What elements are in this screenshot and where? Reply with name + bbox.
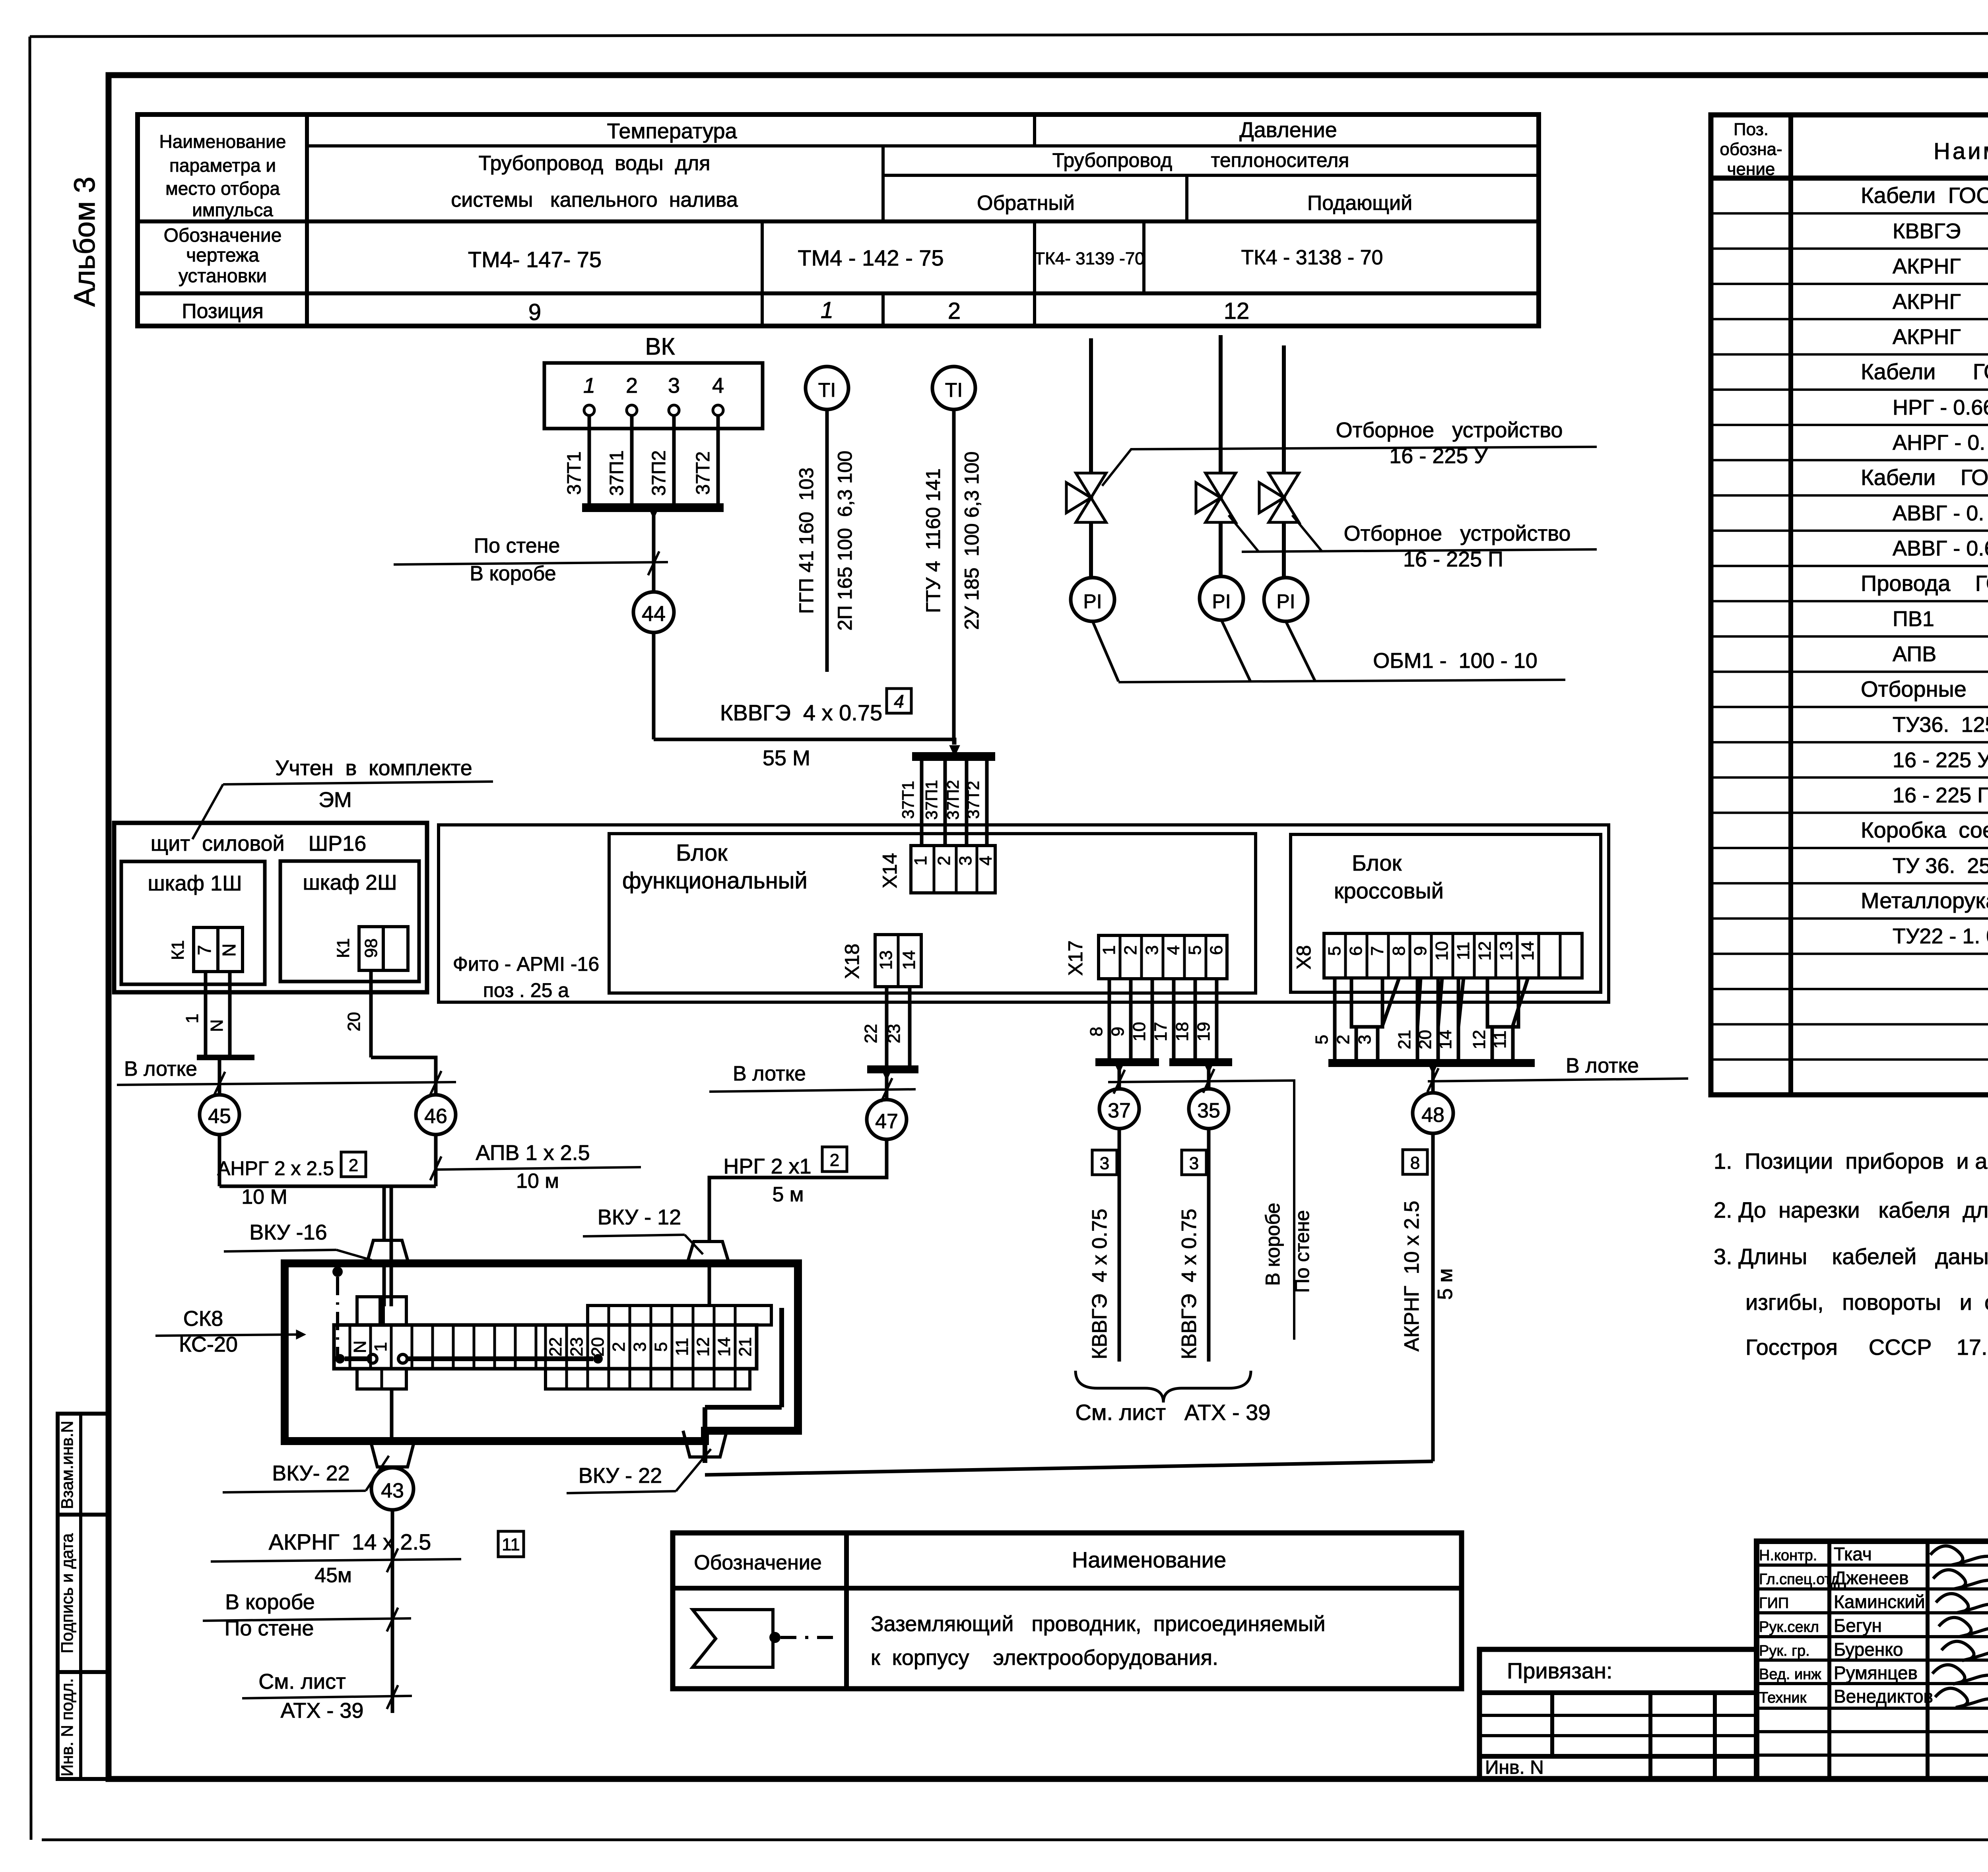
svg-text:Обозначение: Обозначение	[164, 225, 282, 246]
svg-text:Блок: Блок	[1352, 850, 1402, 875]
svg-text:37Т2: 37Т2	[693, 451, 714, 495]
svg-text:45: 45	[208, 1105, 231, 1128]
svg-text:чертежа: чертежа	[186, 245, 259, 266]
svg-text:5: 5	[1325, 946, 1344, 956]
svg-text:В лотке: В лотке	[124, 1057, 197, 1081]
svg-text:Отборные устройства: Отборные устройства	[1861, 676, 1988, 701]
svg-text:9: 9	[528, 299, 541, 325]
svg-text:1: 1	[583, 374, 595, 398]
svg-text:3. Длины кабелей даны с: 3. Длины кабелей даны с учетом 6 % надба…	[1714, 1244, 1988, 1269]
svg-text:импульса: импульса	[192, 200, 273, 220]
svg-text:АВВГ - 0. 66 2 х 2.5: АВВГ - 0. 66 2 х 2.5	[1893, 501, 1988, 525]
svg-text:ТК4 - 3138 - 70: ТК4 - 3138 - 70	[1241, 246, 1383, 269]
svg-text:См. лист АТХ - 39: См. лист АТХ - 39	[1076, 1400, 1271, 1425]
svg-text:13: 13	[1497, 941, 1516, 961]
svg-text:3: 3	[1355, 1035, 1375, 1044]
svg-text:ТУ 36. 2568 - 83: ТУ 36. 2568 - 83	[1893, 854, 1988, 878]
svg-text:37Т1: 37Т1	[564, 451, 585, 495]
svg-text:PI: PI	[1276, 590, 1295, 613]
svg-text:АПВ 1 х 2.5: АПВ 1 х 2.5	[1893, 642, 1988, 666]
svg-text:Бегун: Бегун	[1834, 1615, 1882, 1636]
svg-text:2: 2	[830, 1150, 839, 1170]
svg-text:37: 37	[1108, 1099, 1131, 1122]
svg-text:Альбом 3: Альбом 3	[68, 177, 101, 307]
svg-text:TI: TI	[945, 379, 963, 401]
svg-text:10 м: 10 м	[516, 1170, 559, 1193]
svg-text:X17: X17	[1064, 941, 1087, 976]
svg-text:Давление: Давление	[1239, 118, 1337, 142]
svg-text:11: 11	[672, 1338, 692, 1356]
svg-text:Дженеев: Дженеев	[1834, 1567, 1909, 1588]
svg-text:к корпусу электрооборудова: к корпусу электрооборудования.	[871, 1646, 1218, 1670]
svg-text:Коробка соединительная КС-2: Коробка соединительная КС-20	[1861, 817, 1988, 842]
svg-text:20: 20	[1415, 1030, 1435, 1049]
svg-text:Венедиктов: Венедиктов	[1834, 1686, 1933, 1707]
svg-text:X18: X18	[841, 944, 863, 979]
svg-text:В коробе: В коробе	[470, 562, 556, 585]
svg-text:АПВ 1 х 2.5: АПВ 1 х 2.5	[476, 1141, 590, 1165]
svg-text:Металлорукав РЗ - Ц - Х -: Металлорукав РЗ - Ц - Х - 12	[1861, 888, 1988, 913]
svg-text:АНРГ - 0. 66 2 х 2.5: АНРГ - 0. 66 2 х 2.5	[1893, 431, 1988, 455]
svg-text:ТМ4- 147- 75: ТМ4- 147- 75	[468, 247, 602, 272]
svg-text:2: 2	[626, 374, 638, 398]
svg-text:Румянцев: Румянцев	[1834, 1662, 1918, 1683]
svg-text:В лотке: В лотке	[1566, 1054, 1639, 1077]
svg-text:14: 14	[899, 951, 919, 970]
svg-text:2. До нарезки кабеля длины: 2. До нарезки кабеля длины трасс уточнит…	[1714, 1197, 1988, 1222]
svg-text:48: 48	[1421, 1104, 1444, 1127]
svg-text:НРГ 2 х1: НРГ 2 х1	[723, 1154, 811, 1178]
svg-text:Техник: Техник	[1759, 1690, 1807, 1706]
svg-text:функциональный: функциональный	[622, 868, 808, 894]
svg-text:Поз.: Поз.	[1734, 120, 1769, 139]
svg-text:ОБМ1 - 100 - 10: ОБМ1 - 100 - 10	[1373, 649, 1538, 673]
svg-text:35: 35	[1197, 1099, 1220, 1122]
svg-text:Рук.секл: Рук.секл	[1759, 1619, 1819, 1635]
svg-text:Наименование: Наименование	[159, 131, 286, 152]
svg-text:Провода ГОСТ 6323 - 79: Провода ГОСТ 6323 - 79	[1861, 570, 1988, 596]
svg-text:обозна-: обозна-	[1720, 140, 1782, 159]
svg-text:Блок: Блок	[676, 840, 728, 866]
svg-text:Привязан:: Привязан:	[1507, 1658, 1612, 1683]
svg-text:4: 4	[712, 374, 724, 398]
svg-text:1: 1	[182, 1014, 202, 1023]
svg-text:В лотке: В лотке	[733, 1062, 806, 1085]
svg-text:Рук. гр.: Рук. гр.	[1759, 1643, 1810, 1659]
svg-text:17: 17	[1151, 1022, 1171, 1042]
svg-text:TI: TI	[818, 379, 836, 401]
svg-text:37П2: 37П2	[648, 450, 670, 496]
svg-text:СК8: СК8	[183, 1307, 223, 1331]
svg-text:ВК: ВК	[645, 333, 675, 360]
svg-text:PI: PI	[1083, 590, 1102, 613]
svg-text:Трубопровод теплоносител: Трубопровод теплоносителя	[1052, 149, 1349, 171]
svg-text:щит силовой ШР16: щит силовой ШР16	[151, 832, 367, 855]
svg-text:5 м: 5 м	[1434, 1268, 1457, 1300]
svg-text:Инв. N подл.: Инв. N подл.	[58, 1678, 76, 1777]
svg-text:8: 8	[1087, 1027, 1106, 1036]
svg-text:13: 13	[876, 951, 896, 970]
svg-text:N: N	[219, 943, 239, 956]
svg-text:Отборное устройство: Отборное устройство	[1344, 522, 1571, 545]
svg-text:Подпись и дата: Подпись и дата	[58, 1533, 76, 1653]
svg-text:ТУ22 - 1. 016 - 231 - 86: ТУ22 - 1. 016 - 231 - 86	[1893, 924, 1988, 948]
svg-text:21: 21	[736, 1337, 755, 1357]
svg-text:47: 47	[875, 1110, 898, 1133]
svg-text:11: 11	[502, 1535, 520, 1554]
svg-text:ГТУ 4 1160 141: ГТУ 4 1160 141	[922, 468, 944, 613]
svg-text:43: 43	[381, 1479, 404, 1502]
svg-text:параметра и: параметра и	[169, 155, 276, 176]
svg-text:3: 3	[1189, 1154, 1199, 1173]
svg-text:Подающий: Подающий	[1307, 192, 1412, 215]
svg-text:1. Позиции приборов и аппар: 1. Позиции приборов и аппаратуры указаны…	[1714, 1148, 1988, 1174]
svg-text:N: N	[207, 1019, 227, 1032]
svg-text:37Т1: 37Т1	[899, 781, 917, 819]
svg-text:АВВГ - 0.66 3 х 2.5: АВВГ - 0.66 3 х 2.5	[1893, 537, 1988, 561]
svg-text:ГГП 41 160 103: ГГП 41 160 103	[795, 468, 817, 614]
svg-text:ТК4- 3139 -70: ТК4- 3139 -70	[1034, 249, 1145, 268]
svg-text:3: 3	[668, 374, 680, 398]
svg-text:АНРГ 2 х 2.5: АНРГ 2 х 2.5	[217, 1157, 334, 1179]
svg-text:3: 3	[630, 1342, 650, 1352]
svg-text:55 М: 55 М	[763, 746, 810, 770]
svg-text:9: 9	[1411, 946, 1430, 956]
svg-text:НРГ - 0.66 2 х 1: НРГ - 0.66 2 х 1	[1893, 396, 1988, 419]
svg-text:N: N	[350, 1340, 370, 1353]
svg-text:5 м: 5 м	[772, 1183, 804, 1206]
svg-text:КВВГЭ 4 х 0.75: КВВГЭ 4 х 0.75	[1178, 1209, 1201, 1359]
svg-text:Госстроя СССР 17.12.197: Госстроя СССР 17.12.1979 г N 89Д .	[1745, 1335, 1988, 1360]
svg-text:Наименование: Наименование	[1072, 1547, 1226, 1572]
svg-text:КВВГЭ 4 х 0.75: КВВГЭ 4 х 0.75	[1893, 219, 1988, 243]
svg-text:Позиция: Позиция	[182, 300, 264, 323]
svg-text:46: 46	[424, 1105, 447, 1128]
svg-text:Х8: Х8	[1293, 945, 1315, 969]
svg-text:7: 7	[194, 945, 215, 955]
svg-text:ТУ36. 1258 - 85: ТУ36. 1258 - 85	[1893, 713, 1988, 737]
svg-text:2: 2	[1121, 945, 1140, 955]
svg-text:1: 1	[371, 1342, 390, 1352]
svg-text:8: 8	[1410, 1153, 1420, 1173]
svg-text:14: 14	[1436, 1030, 1455, 1049]
svg-text:2У 185 100 6,3 100: 2У 185 100 6,3 100	[961, 452, 983, 630]
svg-text:16 - 225 У: 16 - 225 У	[1893, 748, 1988, 772]
svg-text:КВВГЭ 4 х 0.75: КВВГЭ 4 х 0.75	[720, 700, 882, 725]
svg-text:Отборное устройство: Отборное устройство	[1336, 418, 1563, 442]
svg-text:3: 3	[956, 856, 975, 865]
svg-text:ВКУ - 12: ВКУ - 12	[598, 1205, 681, 1229]
svg-text:По стене: По стене	[225, 1616, 314, 1640]
svg-text:Ткач: Ткач	[1834, 1544, 1872, 1564]
svg-text:2П 165 100 6,3 100: 2П 165 100 6,3 100	[834, 451, 856, 631]
svg-text:АКРНГ 10 х 2.5: АКРНГ 10 х 2.5	[1400, 1201, 1423, 1351]
svg-text:2: 2	[609, 1342, 629, 1352]
svg-text:Буренко: Буренко	[1834, 1639, 1903, 1660]
svg-text:37П2: 37П2	[944, 780, 962, 820]
svg-text:Вед. инж: Вед. инж	[1759, 1666, 1821, 1683]
svg-text:ВКУ - 22: ВКУ - 22	[579, 1464, 662, 1488]
svg-text:12: 12	[693, 1337, 713, 1357]
svg-text:См. лист: См. лист	[258, 1670, 346, 1694]
svg-text:23: 23	[884, 1024, 904, 1044]
svg-text:22: 22	[861, 1024, 881, 1044]
svg-text:8: 8	[1389, 946, 1409, 956]
svg-text:37П1: 37П1	[606, 450, 627, 496]
svg-text:По стене: По стене	[474, 534, 560, 557]
svg-text:ЭМ: ЭМ	[318, 788, 352, 812]
svg-text:АКРНГ 7 х 2.5: АКРНГ 7 х 2.5	[1893, 254, 1988, 278]
svg-text:Фито - АРМI -16: Фито - АРМI -16	[453, 953, 599, 975]
svg-text:12: 12	[1470, 1030, 1489, 1049]
svg-text:4: 4	[1164, 945, 1183, 955]
svg-text:1: 1	[911, 856, 930, 865]
svg-text:10: 10	[1130, 1022, 1149, 1042]
svg-text:К1: К1	[334, 938, 353, 958]
svg-text:2: 2	[1334, 1035, 1353, 1044]
svg-text:Учтен в комплекте: Учтен в комплекте	[275, 756, 472, 780]
svg-text:18: 18	[1173, 1022, 1192, 1042]
svg-text:11: 11	[1490, 1030, 1510, 1049]
svg-text:3: 3	[1100, 1154, 1109, 1173]
svg-text:К1: К1	[168, 940, 188, 960]
svg-text:23: 23	[567, 1337, 586, 1357]
svg-text:Температура: Температура	[607, 119, 737, 143]
svg-text:4: 4	[894, 691, 904, 712]
svg-text:кроссовый: кроссовый	[1334, 878, 1444, 903]
svg-text:98: 98	[361, 939, 381, 958]
svg-text:По стене: По стене	[1291, 1210, 1313, 1293]
svg-text:11: 11	[1454, 942, 1473, 960]
svg-text:6: 6	[1346, 946, 1366, 956]
svg-text:Каминский: Каминский	[1834, 1591, 1925, 1612]
svg-text:19: 19	[1194, 1022, 1213, 1042]
svg-text:1: 1	[821, 297, 833, 323]
svg-text:АКРНГ 14 х 2.5: АКРНГ 14 х 2.5	[269, 1529, 431, 1554]
svg-text:1: 1	[1099, 945, 1119, 955]
svg-text:44: 44	[642, 602, 666, 626]
svg-text:шкаф 1Ш: шкаф 1Ш	[148, 871, 242, 895]
svg-text:Н.контр.: Н.контр.	[1759, 1547, 1817, 1564]
svg-text:Наименование: Наименование	[1934, 138, 1988, 164]
svg-text:Кабели ГОСТ 433 - 73: Кабели ГОСТ 433 - 73	[1861, 359, 1988, 384]
svg-text:Гл.спец.отд: Гл.спец.отд	[1759, 1571, 1840, 1588]
svg-text:ГИП: ГИП	[1759, 1595, 1789, 1612]
svg-text:5: 5	[651, 1342, 671, 1352]
svg-text:14: 14	[1518, 941, 1538, 961]
svg-text:АКРНГ 10 х 2.5: АКРНГ 10 х 2.5	[1893, 290, 1988, 314]
svg-text:Заземляющий проводник, прис: Заземляющий проводник, присоединяемый	[871, 1612, 1326, 1636]
svg-text:установки: установки	[179, 266, 267, 287]
svg-text:ПВ1 1 х 0.7: ПВ1 1 х 0.75	[1893, 607, 1988, 631]
svg-text:Кабели ГОСТ 16442 - 80: Кабели ГОСТ 16442 - 80	[1861, 465, 1988, 490]
svg-text:чение: чение	[1727, 159, 1775, 179]
svg-text:Трубопровод воды для: Трубопровод воды для	[479, 152, 711, 175]
svg-text:5: 5	[1312, 1035, 1332, 1044]
svg-text:2: 2	[349, 1156, 358, 1175]
svg-text:PI: PI	[1212, 590, 1231, 613]
svg-text:6: 6	[1207, 945, 1226, 955]
svg-text:10 М: 10 М	[241, 1185, 287, 1209]
svg-text:Обозначение: Обозначение	[694, 1551, 822, 1574]
svg-text:3: 3	[1142, 945, 1162, 955]
svg-text:2: 2	[934, 856, 954, 865]
svg-text:Обратный: Обратный	[977, 192, 1075, 215]
svg-text:45м: 45м	[315, 1564, 352, 1587]
svg-text:ТМ4 - 142 - 75: ТМ4 - 142 - 75	[798, 245, 944, 270]
svg-text:Взам.инв.N: Взам.инв.N	[58, 1421, 76, 1509]
svg-text:7: 7	[1368, 946, 1387, 956]
svg-text:10: 10	[1432, 941, 1452, 961]
svg-text:12: 12	[1224, 298, 1250, 324]
svg-text:В коробе: В коробе	[225, 1590, 315, 1614]
svg-text:В коробе: В коробе	[1262, 1203, 1284, 1286]
svg-text:место отбора: место отбора	[165, 178, 280, 199]
svg-text:12: 12	[1475, 941, 1495, 961]
svg-text:АТХ - 39: АТХ - 39	[281, 1699, 364, 1723]
svg-text:20: 20	[588, 1337, 608, 1357]
svg-text:Инв. N: Инв. N	[1485, 1757, 1544, 1778]
svg-text:системы капельного налива: системы капельного налива	[451, 188, 738, 211]
svg-text:4: 4	[976, 856, 996, 865]
svg-text:21: 21	[1395, 1030, 1414, 1049]
svg-text:14: 14	[714, 1337, 734, 1357]
svg-text:20: 20	[344, 1012, 364, 1032]
svg-text:изгибы, повороты и отходы: изгибы, повороты и отходы согласно письм…	[1745, 1290, 1988, 1315]
svg-text:поз . 25 а: поз . 25 а	[483, 979, 569, 1001]
svg-text:37Т2: 37Т2	[964, 781, 982, 819]
svg-text:АКРНГ 14 х 2.5: АКРНГ 14 х 2.5	[1893, 325, 1988, 349]
svg-text:ВКУ- 22: ВКУ- 22	[272, 1461, 349, 1485]
svg-text:ВКУ -16: ВКУ -16	[249, 1220, 327, 1244]
svg-text:КВВГЭ 4 х 0.75: КВВГЭ 4 х 0.75	[1088, 1209, 1111, 1359]
svg-text:шкаф 2Ш: шкаф 2Ш	[303, 871, 397, 894]
svg-text:5: 5	[1185, 945, 1205, 955]
svg-text:Кабели ГОСТ 1508 -78: Кабели ГОСТ 1508 -78	[1861, 183, 1988, 208]
svg-text:37П1: 37П1	[922, 780, 941, 820]
svg-text:2: 2	[948, 298, 961, 324]
svg-text:9: 9	[1108, 1027, 1128, 1036]
svg-text:22: 22	[546, 1337, 565, 1357]
svg-text:X14: X14	[879, 853, 901, 888]
svg-text:16 - 225 П: 16 - 225 П	[1893, 783, 1988, 807]
